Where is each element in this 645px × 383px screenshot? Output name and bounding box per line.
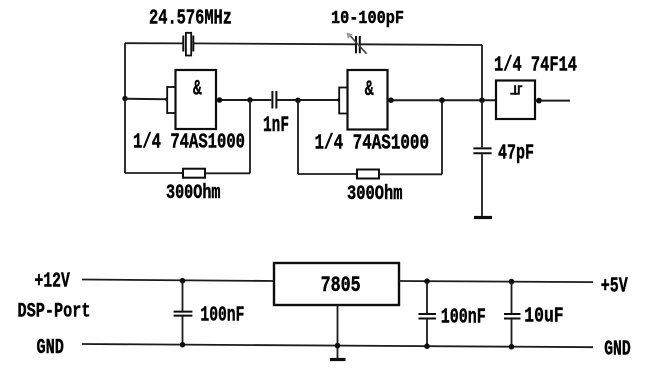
svg-text:7805: 7805 xyxy=(321,273,361,298)
capacitor C3 1nF plates xyxy=(272,91,276,109)
capacitor C6 100nF xyxy=(419,281,437,346)
svg-text:+5V: +5V xyxy=(601,275,628,298)
svg-text:100nF: 100nF xyxy=(441,305,486,329)
capacitor C5 100nF xyxy=(174,281,193,346)
svg-text:1/4 74AS1000: 1/4 74AS1000 xyxy=(133,132,245,155)
wire feedback 2 right vertical xyxy=(441,100,443,174)
value label 100nF C6 xyxy=(441,305,486,329)
wire right vertical lower segment xyxy=(481,154,483,216)
capacitor C7 10uF xyxy=(504,282,521,347)
svg-text:&: & xyxy=(193,75,202,101)
value label 300Ohm R2 xyxy=(347,183,403,206)
svg-text:&: & xyxy=(365,76,374,102)
U2 output dot xyxy=(536,98,542,104)
Schmitt trigger inverter U2 body xyxy=(496,81,535,120)
wire feedback 1 left horizontal xyxy=(125,172,183,174)
junction dot ground pin on GND bus xyxy=(335,343,341,349)
svg-text:GND: GND xyxy=(37,337,64,360)
value label 100nF C5 xyxy=(200,303,244,327)
gate 2 input junction dot xyxy=(337,97,342,102)
gate 1 output dot xyxy=(217,97,223,103)
wire gate 2 output to Schmitt input xyxy=(388,99,497,101)
value label 10-100pF xyxy=(331,8,404,29)
svg-text:10-100pF: 10-100pF xyxy=(331,8,404,29)
NAND gate U1B input bracket xyxy=(339,88,347,114)
junction dot C7 bottom xyxy=(509,344,515,350)
junction dot gate 2 input node B xyxy=(295,98,301,104)
voltage regulator U3 7805 xyxy=(274,263,399,305)
resistor R2 300 Ohm xyxy=(357,170,379,179)
junction dot top bus tap xyxy=(479,97,485,103)
svg-text:1/4 74AS1000: 1/4 74AS1000 xyxy=(315,132,430,155)
junction dot C5 bottom xyxy=(180,342,186,348)
wire top feedback bus left segment xyxy=(125,42,183,44)
NAND gate U1A body xyxy=(176,70,217,129)
NAND gate U1B body xyxy=(348,70,388,130)
wire left vertical node A xyxy=(124,43,126,173)
wire U2 output xyxy=(535,100,570,102)
node A junction dot xyxy=(122,96,127,101)
value label 47pF xyxy=(498,141,534,165)
wire crystal to trimmer xyxy=(193,42,355,45)
wire trimmer to right vertical xyxy=(360,43,482,46)
wire 1nF to gate 2 input xyxy=(277,99,339,101)
label 1/4 74F14 xyxy=(494,55,577,78)
label DSP-Port xyxy=(18,300,91,323)
wire +12V input bus xyxy=(82,280,274,282)
resistor R1 300 Ohm xyxy=(183,169,205,178)
svg-text:1/4 74F14: 1/4 74F14 xyxy=(494,55,577,78)
junction dot C7 top xyxy=(509,279,515,285)
value label 24.576MHz xyxy=(149,8,232,31)
wire U3 ground pin xyxy=(337,305,339,358)
junction dot feedback 2 tap xyxy=(439,97,445,103)
value label 10uF C7 xyxy=(524,305,563,328)
label +5V xyxy=(601,275,628,298)
wire feedback 1 right horizontal xyxy=(205,172,250,174)
wire feedback 2 left vertical xyxy=(297,100,299,174)
crystal X1 24.576MHz xyxy=(183,33,193,56)
junction dot C6 top xyxy=(424,278,430,284)
ground symbol GND1 xyxy=(474,216,492,219)
label GND right xyxy=(604,339,631,362)
svg-text:1nF: 1nF xyxy=(263,113,289,138)
svg-text:+12V: +12V xyxy=(35,270,70,294)
junction dot feedback 1 tap xyxy=(247,97,253,103)
trimmer capacitor C1 10-100pF xyxy=(347,33,367,54)
label 1/4 74AS1000 gate 1 xyxy=(133,132,245,155)
svg-text:10uF: 10uF xyxy=(524,305,563,328)
svg-text:24.576MHz: 24.576MHz xyxy=(149,8,232,31)
wire feedback 1 right vertical xyxy=(249,100,251,173)
svg-text:GND: GND xyxy=(604,339,631,362)
capacitor C4 47pF plates xyxy=(473,148,491,153)
wire node A to gate 1 input xyxy=(125,98,167,101)
svg-text:300Ohm: 300Ohm xyxy=(166,182,221,205)
gate 2 output dot xyxy=(388,97,394,103)
wire GND bus xyxy=(82,344,593,347)
label 1/4 74AS1000 gate 2 xyxy=(315,132,430,155)
wire feedback 2 right horizontal xyxy=(379,173,442,175)
value label 1nF xyxy=(263,113,289,138)
svg-text:300Ohm: 300Ohm xyxy=(347,183,403,206)
label +12V xyxy=(35,270,70,294)
NAND gate U1A input bracket xyxy=(167,87,175,113)
wire feedback 2 left horizontal xyxy=(298,173,357,175)
svg-text:100nF: 100nF xyxy=(200,303,244,327)
label GND left xyxy=(37,337,64,360)
wire +5V output bus xyxy=(399,281,593,282)
junction dot C5 top xyxy=(180,278,186,284)
wire gate 1 output to 1nF xyxy=(216,99,271,101)
wire right vertical upper segment xyxy=(481,45,483,147)
svg-text:47pF: 47pF xyxy=(498,141,534,165)
ground symbol GND2 xyxy=(330,358,346,361)
svg-text:DSP-Port: DSP-Port xyxy=(18,300,91,323)
value label 300Ohm R1 xyxy=(166,182,221,205)
gate 1 input junction dot xyxy=(165,97,170,102)
junction dot C6 bottom xyxy=(424,343,430,349)
